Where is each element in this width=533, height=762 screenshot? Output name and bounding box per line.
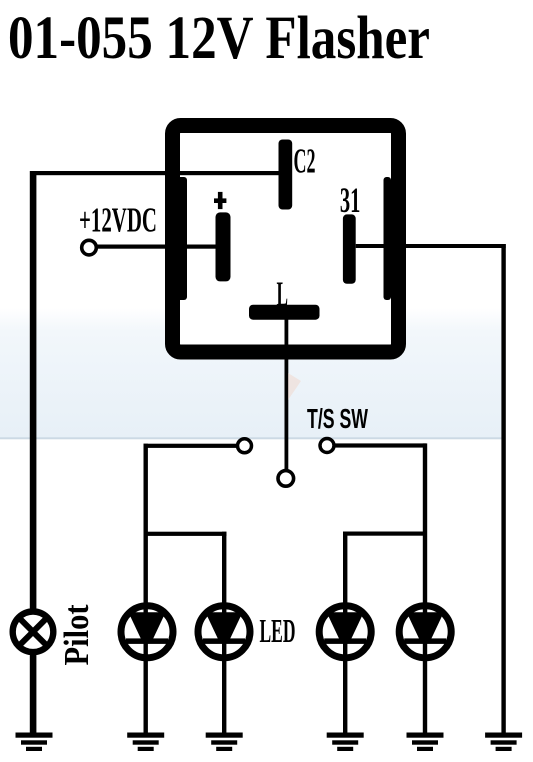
wire: +12VDC to + terminal [96,245,216,249]
wire: right branch horizontal [343,532,427,536]
svg-text:01-055 12V Flasher: 01-055 12V Flasher [8,5,430,72]
left border tab [177,177,187,300]
ground G5 [407,733,444,752]
ground G1 [16,733,53,752]
svg-text:L: L [277,275,289,314]
switch pole contact [278,471,294,487]
wire: left branch horizontal [144,532,227,536]
ground G6 [485,733,522,752]
svg-text:+12VDC: +12VDC [79,201,157,240]
relay box U1 outline [173,126,399,353]
switch right contact [320,439,334,453]
terminal C2 bar [279,140,293,210]
svg-text:T/S SW: T/S SW [307,403,368,434]
wire: right contact to right branch [334,443,426,447]
LED D1 [121,606,173,658]
svg-text:Pilot: Pilot [57,604,96,665]
LED D3 [319,606,371,658]
ground G2 [127,733,164,752]
svg-text:C2: C2 [294,142,316,181]
terminal L bar [249,305,320,320]
ground G4 [327,733,364,752]
wire: 31 to right vertical [356,244,506,248]
terminal 31 bar [343,214,356,283]
wire: LED3 vertical [343,532,347,734]
wire: left vertical (top to pilot) [30,171,37,609]
LED D2 [198,606,250,658]
wire: left vertical (pilot to ground) [30,653,37,733]
switch left contact [238,439,252,453]
LED D4 [399,606,451,658]
terminal circle +12VDC [82,240,97,255]
wire: right vertical down to ground [501,244,505,733]
wire: top-left horizontal to C2 [30,171,279,175]
wire: LED2 vertical [222,532,226,733]
wire: left branch vertical (to LED1 and ground) [144,444,148,733]
wire: left contact to left branch [144,444,238,448]
right border tab [384,177,392,300]
terminal + bar [216,212,231,281]
label + [214,198,226,203]
svg-text:LED: LED [260,613,296,650]
pilot lamp [13,612,54,653]
svg-text:31: 31 [340,180,361,220]
wire: L down to switch pole [285,320,289,471]
ground G3 [206,733,243,752]
wire: right branch vertical (to LED4 and ground) [423,443,427,733]
